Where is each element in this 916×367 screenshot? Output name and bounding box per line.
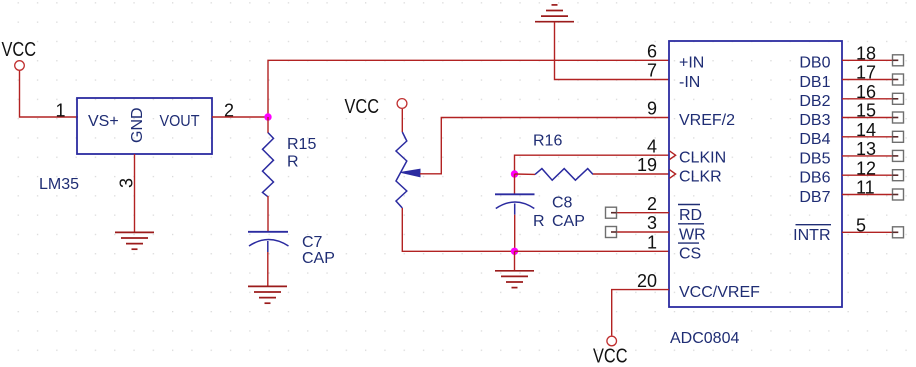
svg-text:CAP: CAP [302, 250, 335, 267]
svg-text:GND: GND [129, 107, 146, 143]
resistor R15 [263, 133, 317, 197]
pad square DB2 [893, 93, 904, 104]
wire DB0 [842, 59, 898, 61]
svg-text:VCC: VCC [2, 39, 37, 61]
potentiometer body [396, 132, 407, 208]
svg-text:7: 7 [647, 61, 657, 81]
svg-text:12: 12 [856, 158, 876, 178]
svg-text:15: 15 [856, 101, 876, 121]
svg-text:DB5: DB5 [799, 150, 830, 167]
svg-text:1: 1 [56, 101, 66, 121]
node C junction [511, 248, 518, 255]
wire R16 to ADC CLKR [593, 173, 669, 175]
svg-text:R15: R15 [287, 136, 316, 153]
svg-text:-IN: -IN [679, 74, 700, 91]
svg-text:14: 14 [856, 120, 876, 140]
power VCC3 [593, 336, 628, 367]
wire node C to ground [514, 251, 516, 270]
svg-text:3: 3 [647, 213, 657, 233]
svg-text:4: 4 [647, 136, 657, 156]
ground G1 [115, 232, 154, 249]
wire ADC CLKIN [515, 155, 670, 174]
wire ground G4 to ADC -IN [555, 22, 670, 80]
wire ADC VCC/VREF to VCC3 [612, 290, 669, 336]
pin name CS with overline [678, 243, 701, 263]
pad square DB6 [893, 170, 904, 181]
svg-text:CLKR: CLKR [679, 168, 722, 185]
wire DB4 [842, 136, 898, 138]
svg-text:9: 9 [647, 99, 657, 119]
resistor R16 [533, 133, 593, 181]
svg-text:CS: CS [679, 246, 701, 263]
svg-text:13: 13 [856, 139, 876, 159]
wire DB2 [842, 98, 898, 100]
svg-text:DB0: DB0 [799, 55, 830, 72]
svg-text:CLKIN: CLKIN [679, 150, 726, 167]
svg-text:R16: R16 [533, 133, 562, 150]
wire C8 to node C [514, 215, 516, 252]
svg-text:ADC0804: ADC0804 [670, 330, 739, 347]
svg-text:5: 5 [856, 216, 866, 236]
wire node B to C8 [514, 174, 516, 194]
wire ADC WR to pad [611, 231, 669, 233]
pad square DB0 [893, 55, 904, 66]
wire DB7 [842, 194, 898, 196]
potentiometer wiper arrow [401, 169, 420, 177]
pin name INTR with overline [793, 225, 831, 244]
svg-text:16: 16 [856, 82, 876, 102]
pin name WR with overline [678, 224, 706, 244]
wire LM35 VOUT to node A [212, 116, 268, 118]
wire potentiometer bottom to CS rail [402, 208, 514, 251]
pad square RD [606, 207, 617, 218]
wire node C to ADC CS [515, 250, 670, 252]
svg-text:VCC: VCC [345, 96, 380, 118]
pad square INTR [893, 227, 904, 238]
svg-text:1: 1 [647, 233, 657, 253]
wire DB1 [842, 79, 898, 81]
wire node B to R16 [515, 173, 536, 175]
wire DB3 [842, 117, 898, 119]
wire VCC2 to potentiometer [401, 109, 403, 132]
svg-text:C7: C7 [302, 234, 323, 251]
ground G3 [495, 271, 534, 288]
wire DB6 [842, 174, 898, 176]
pad square WR [606, 227, 617, 238]
svg-text:C8: C8 [552, 195, 573, 212]
wire C7 to ground [267, 252, 269, 286]
wire wiper to ADC VREF/2 [420, 118, 669, 174]
svg-text:6: 6 [647, 42, 657, 62]
svg-text:DB1: DB1 [799, 74, 830, 91]
wire node A up and right to ADC +IN [268, 60, 669, 117]
svg-text:DB4: DB4 [799, 131, 830, 148]
pad square DB7 [893, 189, 904, 200]
svg-text:WR: WR [679, 226, 706, 243]
pad square DB1 [893, 74, 904, 85]
wire LM35 pin3 to ground [134, 154, 136, 232]
svg-text:INTR: INTR [793, 227, 830, 244]
svg-text:VREF/2: VREF/2 [679, 112, 735, 129]
svg-text:DB7: DB7 [799, 189, 830, 206]
svg-text:RD: RD [679, 207, 702, 224]
svg-text:R: R [287, 154, 299, 171]
svg-text:17: 17 [856, 63, 876, 83]
capacitor C7 [248, 232, 335, 267]
svg-text:+IN: +IN [679, 55, 704, 72]
ground G2 [248, 286, 287, 303]
svg-text:CAP: CAP [552, 213, 585, 230]
svg-text:3: 3 [117, 178, 137, 188]
svg-text:DB2: DB2 [799, 93, 830, 110]
capacitor C8 [495, 194, 585, 230]
svg-text:VS+: VS+ [88, 113, 119, 130]
pad square DB3 [893, 112, 904, 123]
svg-text:19: 19 [637, 155, 657, 175]
wire INTR [842, 231, 898, 233]
svg-text:VCC: VCC [593, 346, 628, 367]
svg-text:VCC/VREF: VCC/VREF [679, 284, 760, 301]
ground G4 (top) [535, 5, 574, 22]
wire VCC1 to LM35 pin1 [20, 71, 79, 117]
svg-text:R: R [533, 213, 545, 230]
svg-text:2: 2 [647, 194, 657, 214]
wire node A to R15 [267, 117, 269, 133]
wire DB5 [842, 155, 898, 157]
svg-text:11: 11 [856, 178, 875, 198]
power VCC1 [2, 39, 37, 70]
svg-text:18: 18 [856, 44, 876, 64]
node B junction [511, 170, 518, 177]
svg-text:20: 20 [637, 271, 657, 291]
node A junction [264, 113, 271, 120]
power VCC2 [345, 96, 407, 118]
IC U2 ADC0804 [669, 41, 842, 347]
IC U1 LM35 [39, 98, 212, 193]
svg-text:DB3: DB3 [799, 112, 830, 129]
clock arrow CLKIN [670, 151, 676, 160]
wire R15 to C7 [267, 196, 269, 232]
wire ADC RD to pad [611, 212, 669, 214]
svg-text:LM35: LM35 [39, 176, 79, 193]
pad square DB4 [893, 131, 904, 142]
svg-text:VOUT: VOUT [160, 113, 200, 130]
clock arrow CLKR [670, 170, 676, 179]
pin name RD with overline [678, 205, 702, 225]
pad square DB5 [893, 150, 904, 161]
svg-text:DB6: DB6 [799, 170, 830, 187]
